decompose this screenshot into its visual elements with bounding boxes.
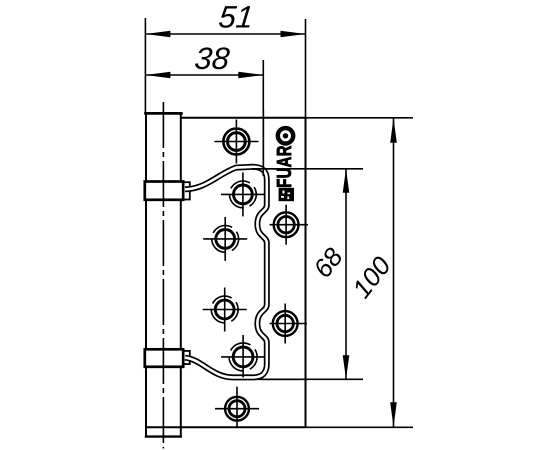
inner leaf contour (double line) [185, 167, 267, 378]
68 bottom extension overdraw (crosses corner) [258, 378, 300, 380]
68 top extension overdraw (crosses corner) [252, 168, 290, 170]
barrel right edge [180, 113, 182, 436]
knuckle bottom [145, 349, 183, 367]
barrel top cap [144, 112, 183, 115]
plate top edge [182, 117, 306, 119]
extension line 100 bottom (from plate bottom-right corner) [306, 426, 414, 428]
svg-text:38: 38 [193, 41, 232, 76]
screw A8 bottom (two full circles) [215, 387, 259, 428]
tab bottom (inner leaf lug) [184, 351, 190, 364]
dimension line 38 [145, 74, 263, 76]
knuckle top [145, 182, 183, 200]
38 extension overdraw through corner [262, 110, 264, 176]
dimension line 68 [345, 169, 347, 379]
screw A1 top (two full circles) [214, 120, 258, 164]
plate bottom edge [145, 426, 306, 428]
screw B3 (circle + broken arc) [203, 217, 247, 261]
extension line 100 top (from plate top-right corner) [306, 117, 414, 119]
svg-text:FUAR: FUAR [273, 145, 296, 188]
FUARO logo: trademark block [279, 188, 294, 201]
barrel left edge [145, 113, 147, 436]
screw A4 right top (two full circles) [270, 205, 309, 245]
extension line right of 51 (collinear with plate right edge) [305, 19, 307, 117]
svg-text:51: 51 [217, 0, 255, 34]
FUARO logo: O ring with dot [278, 128, 293, 143]
extension line 68 top [252, 168, 363, 170]
screw B7 (circle + broken arc) [221, 335, 265, 378]
extension line 68 bottom [262, 378, 363, 380]
barrel bottom cap [145, 435, 182, 437]
screw A6 right bottom (two full circles) [270, 304, 308, 344]
dimension line 100 [393, 118, 395, 428]
dimension line 51 [145, 33, 305, 35]
extension line left (51/38 datum, collinear with barrel left edge) [144, 18, 146, 113]
extension line right of 38 [262, 60, 264, 176]
tab top (inner leaf lug) [184, 182, 190, 199]
plate right edge [305, 118, 307, 428]
barrel center line (dash-dot axis) [162, 102, 164, 449]
screw B2 (circle + broken arc) [221, 172, 265, 216]
screw B5 (circle + broken arc) [203, 288, 247, 332]
